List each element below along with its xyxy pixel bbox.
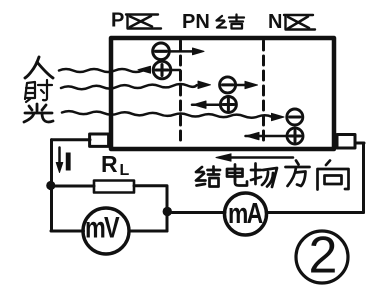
PN device rectangle	[111, 38, 334, 149]
electron e2 circle-minus	[220, 77, 236, 93]
field direction text 向	[318, 161, 349, 190]
svg-text:P: P	[111, 10, 124, 32]
wire resistor to node2	[134, 186, 167, 231]
svg-text:mV: mV	[85, 211, 120, 244]
wire ammeter to right rail	[267, 211, 364, 214]
wire node2 to ammeter	[172, 211, 225, 214]
wire left rail to voltmeter	[51, 230, 84, 233]
label P region "P区"	[111, 10, 161, 32]
electron e1 circle-minus	[153, 43, 170, 60]
resistor RL body	[94, 181, 134, 193]
electron e3 drift arrowhead (right)	[272, 113, 285, 120]
ammeter mA	[225, 193, 267, 235]
electron e2 drift arrow right segment	[236, 84, 250, 87]
svg-text:I: I	[64, 148, 73, 176]
hole drift arrowhead pair1 (left)	[138, 66, 151, 73]
hole h3 circle-plus	[287, 128, 303, 144]
right rail wire	[362, 143, 365, 213]
incident light text 光	[24, 104, 53, 122]
field direction text 方	[286, 161, 310, 187]
wire voltmeter to node2	[129, 230, 167, 233]
hole h2 drift arrow (left)	[192, 103, 221, 106]
electron e3 circle-minus	[287, 109, 303, 125]
light ray 2 (wavy)	[61, 84, 197, 89]
light ray 1 (wavy)	[59, 69, 143, 72]
dashed junction boundary left	[179, 41, 182, 146]
label N region "N区"	[268, 11, 315, 33]
svg-text:L: L	[120, 162, 130, 179]
light ray 3 (wavy)	[62, 111, 272, 118]
voltmeter mV	[83, 208, 129, 254]
field direction text 结	[196, 167, 220, 187]
hole h3 drift arrow (left)	[246, 135, 288, 138]
electron e2 drift arrowhead (right)	[198, 81, 211, 88]
svg-text:R: R	[101, 151, 118, 177]
light ray 1 continuation	[171, 69, 180, 72]
junction field direction arrow (points left)	[230, 156, 293, 159]
label PN junction "PN结"	[182, 11, 244, 33]
current label I with arrow	[56, 148, 73, 177]
left rail wire	[50, 140, 53, 231]
hole h1 circle-plus	[153, 61, 171, 79]
incident light text 入	[25, 57, 53, 78]
node dot right	[163, 207, 172, 216]
svg-text:2: 2	[309, 227, 338, 285]
field direction text 场	[251, 164, 277, 188]
svg-text:PN: PN	[182, 11, 210, 33]
hole h2 circle-plus	[220, 97, 236, 113]
figure number circled 2	[296, 227, 348, 285]
dashed junction boundary right	[262, 41, 265, 146]
svg-text:mA: mA	[228, 196, 263, 229]
electron e1 drift arrow (right)	[170, 50, 200, 53]
wire terminal-left to left rail	[52, 138, 91, 141]
wire right rail to right terminal	[355, 142, 364, 145]
wire node to resistor	[51, 185, 94, 188]
incident light text 射	[25, 80, 52, 102]
right terminal block	[337, 135, 355, 149]
left terminal block	[90, 134, 109, 146]
field direction text 电	[227, 165, 247, 186]
svg-text:N: N	[268, 11, 282, 33]
node dot left	[46, 181, 55, 190]
